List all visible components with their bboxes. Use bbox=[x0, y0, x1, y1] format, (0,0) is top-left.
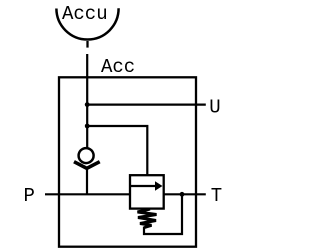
node U junction bbox=[85, 102, 90, 107]
enclosure box bbox=[59, 77, 196, 246]
wire accumulator vertical line bbox=[86, 54, 88, 148]
check valve seat bbox=[74, 162, 100, 169]
wire check valve to P line bbox=[86, 169, 88, 195]
node pilot junction bbox=[85, 124, 90, 129]
wire U line bbox=[87, 103, 206, 105]
wire pilot line bbox=[87, 126, 147, 175]
wire T line bbox=[164, 193, 206, 195]
wire drain loop bbox=[144, 194, 182, 234]
svg-text:Accu: Accu bbox=[62, 3, 108, 25]
relief valve arrow bbox=[130, 185, 157, 187]
svg-text:U: U bbox=[209, 97, 220, 119]
relief valve spring bbox=[138, 209, 157, 228]
accumulator shell bbox=[56, 8, 118, 39]
check valve ball bbox=[79, 148, 94, 163]
wire accumulator stub bbox=[86, 41, 88, 48]
relief valve arrowhead bbox=[155, 181, 163, 191]
svg-text:P: P bbox=[24, 185, 35, 207]
svg-text:T: T bbox=[211, 185, 222, 207]
svg-text:Acc: Acc bbox=[101, 56, 135, 78]
wire P line bbox=[45, 193, 130, 195]
relief valve body bbox=[130, 175, 164, 208]
node T junction bbox=[180, 192, 185, 197]
